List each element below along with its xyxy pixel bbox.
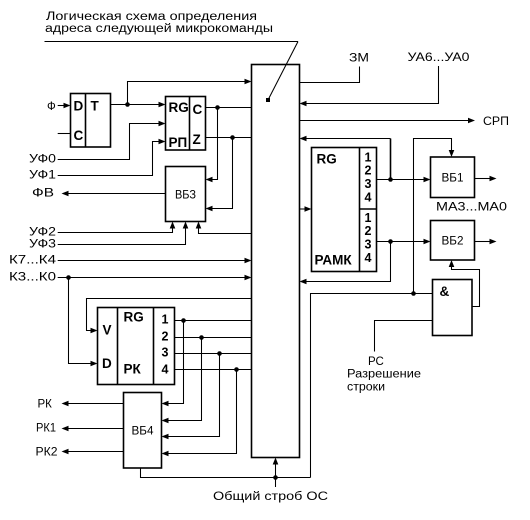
wire ЗМ to central block — [300, 67, 360, 83]
svg-text:К3...К0: К3...К0 — [9, 272, 56, 284]
svg-text:V: V — [103, 323, 112, 338]
svg-text:C: C — [74, 128, 84, 143]
svg-text:1: 1 — [365, 151, 372, 165]
wire РК — [69, 403, 124, 405]
svg-text:&: & — [440, 284, 450, 299]
svg-text:РАМК: РАМК — [315, 253, 353, 268]
wire Z down to ВБЗ — [212, 138, 233, 209]
svg-text:УФ0: УФ0 — [29, 154, 56, 166]
svg-text:T: T — [91, 99, 100, 114]
central block — [252, 65, 300, 458]
input РС wire — [375, 321, 433, 352]
wire strobe riser to AND gate — [311, 294, 433, 478]
wire К3...К0 down to D input — [69, 278, 92, 364]
wire УА6...УА0 to central block — [306, 66, 439, 104]
svg-text:УФ2: УФ2 — [29, 227, 56, 239]
leader end square — [266, 98, 270, 102]
svg-text:МА3...МА0: МА3...МА0 — [436, 202, 507, 214]
svg-text:УФ3: УФ3 — [29, 239, 56, 251]
wire РАМК out2 feedback to central block — [306, 242, 391, 282]
svg-text:ФВ: ФВ — [32, 188, 54, 200]
wire output 2 down to ВБ4 — [168, 338, 202, 421]
block ВБ2 — [431, 221, 475, 261]
wire ВБ1 output — [475, 178, 490, 180]
junction dot 1 — [181, 318, 186, 323]
svg-text:2: 2 — [162, 330, 169, 344]
svg-text:Разрешение: Разрешение — [347, 369, 421, 381]
svg-text:УФ1: УФ1 — [29, 170, 56, 182]
svg-text:СРП: СРП — [483, 116, 509, 128]
wire central block to V input — [87, 299, 252, 331]
svg-text:К7...К4: К7...К4 — [9, 255, 57, 267]
wire ВБ4 bottom to strobe line — [141, 468, 311, 478]
svg-text:Общий строб ОС: Общий строб ОС — [213, 491, 328, 503]
wire junction up to central block — [128, 82, 246, 105]
svg-text:РП: РП — [169, 135, 188, 150]
svg-text:РС: РС — [368, 356, 384, 368]
wire РК output 3 — [175, 353, 252, 355]
wire К7...К4 to central block — [58, 260, 245, 262]
flip-flop DT block — [71, 94, 111, 148]
svg-text:РК1: РК1 — [36, 423, 56, 435]
svg-text:ВБ1: ВБ1 — [442, 173, 464, 185]
wire К3...К0 to central block — [58, 277, 245, 279]
wire СРП — [300, 120, 469, 122]
svg-text:D: D — [102, 356, 112, 371]
svg-text:D: D — [74, 99, 84, 114]
junction dot strobe/AND — [411, 291, 416, 296]
wire DT output to RG input — [111, 104, 160, 106]
svg-text:RG: RG — [124, 310, 144, 325]
wire РК2 — [69, 451, 124, 453]
wire strobe label stub — [275, 478, 277, 488]
register RG/РАМК block — [312, 148, 377, 272]
wire РК1 — [69, 428, 124, 430]
svg-text:RG: RG — [169, 100, 189, 115]
wire ВБ2 output — [475, 241, 491, 243]
wire output 4 down to ВБ4 — [168, 370, 237, 454]
junction dot 2 — [199, 335, 204, 340]
svg-text:4: 4 — [162, 363, 169, 377]
register RG/РП block — [166, 97, 206, 151]
junction dot РАМК out2 — [388, 239, 393, 244]
junction dot C — [215, 105, 220, 110]
svg-text:1: 1 — [365, 211, 372, 225]
wire Ф to D — [58, 105, 64, 107]
svg-text:РК: РК — [38, 399, 53, 411]
svg-text:ВБ4: ВБ4 — [132, 426, 155, 438]
wire central block to ВБЗ bottom — [199, 228, 252, 234]
junction dot DT output — [125, 102, 130, 107]
wire C input — [58, 133, 71, 135]
svg-text:4: 4 — [365, 191, 372, 205]
wire Z output of RG to central block — [206, 137, 252, 139]
wire strobe arrow into central block bottom — [275, 464, 277, 478]
junction dot 3 — [217, 351, 222, 356]
register V/D RG/РК block — [98, 308, 175, 385]
wire C output of RG to central block — [206, 107, 252, 109]
svg-text:3: 3 — [365, 177, 372, 191]
title leader line — [45, 41, 299, 43]
svg-text:3: 3 — [162, 346, 169, 360]
junction dot Z — [230, 135, 235, 140]
svg-text:адреса следующей микрокоманды: адреса следующей микрокоманды — [45, 23, 273, 35]
AND gate block — [433, 280, 473, 336]
wire УФ0 — [58, 124, 159, 160]
svg-text:2: 2 — [365, 164, 372, 178]
wire УФ2 to ВБЗ bottom — [58, 228, 173, 233]
title text — [45, 11, 273, 35]
svg-text:1: 1 — [162, 313, 169, 327]
junction dot strobe — [273, 475, 278, 480]
svg-text:C: C — [193, 102, 203, 117]
junction dot 4 — [234, 367, 239, 372]
svg-text:ВБЗ: ВБЗ — [175, 190, 196, 202]
wire РК output 1 — [175, 320, 252, 322]
wire output 1 down to ВБ4 — [168, 321, 184, 404]
junction dot РАМК out1 — [388, 177, 393, 182]
svg-text:3: 3 — [365, 238, 372, 252]
wire РК output 2 — [175, 337, 252, 339]
wire УФ1 — [58, 142, 159, 176]
svg-text:РК: РК — [124, 362, 142, 377]
svg-text:Логическая схема определения: Логическая схема определения — [46, 11, 257, 23]
svg-text:Ф: Ф — [47, 101, 56, 113]
wire РК output 4 — [175, 369, 252, 371]
wire РАМК output 2 — [377, 241, 425, 243]
wire C down to ВБЗ — [212, 108, 218, 180]
wire output 3 down to ВБ4 — [168, 354, 220, 437]
wire РАМК output 1 — [377, 179, 425, 181]
svg-text:УА6...УА0: УА6...УА0 — [408, 52, 470, 64]
svg-text:ВБ2: ВБ2 — [442, 236, 464, 248]
block ВБ1 — [431, 157, 475, 198]
block ВБЗ — [166, 167, 206, 222]
svg-text:ЗМ: ЗМ — [349, 53, 369, 65]
junction dot К3...К0 — [66, 275, 71, 280]
svg-text:Z: Z — [193, 132, 201, 147]
leader diagonal — [268, 42, 298, 101]
svg-text:4: 4 — [365, 251, 372, 265]
svg-text:2: 2 — [365, 224, 372, 238]
wire УФ3 to ВБЗ bottom — [58, 228, 186, 245]
svg-text:РК2: РК2 — [36, 447, 58, 459]
wire ФВ from ВБЗ — [69, 193, 166, 195]
svg-text:RG: RG — [317, 152, 337, 167]
wire central block to РАМК input — [300, 208, 306, 210]
wire РАМК out1 feedback to central block — [390, 139, 392, 180]
block ВБ4 — [124, 393, 162, 469]
svg-text:строки: строки — [347, 382, 385, 394]
wire strobe up to ВБ1 top — [414, 139, 452, 294]
wire AND output to ВБ2 bottom — [452, 267, 480, 307]
